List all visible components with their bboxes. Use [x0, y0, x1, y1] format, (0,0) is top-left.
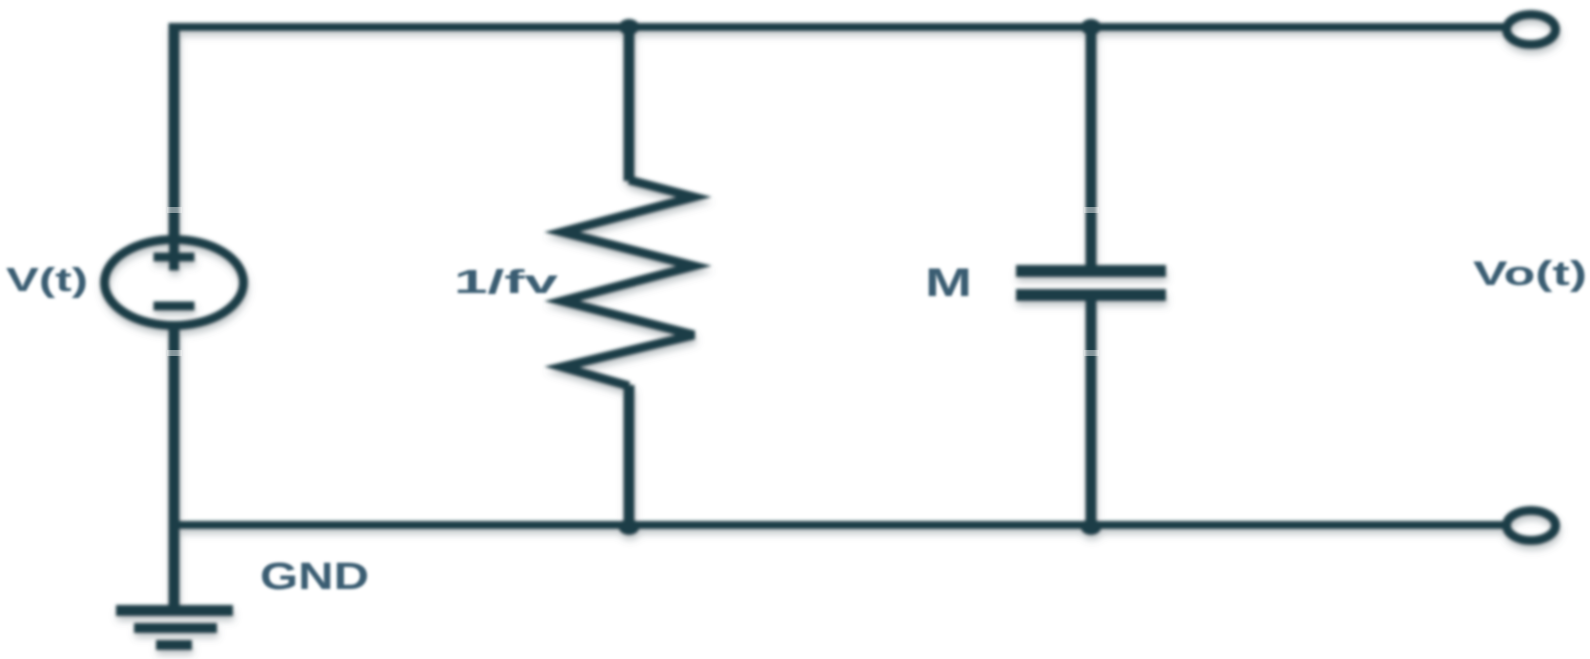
svg-text:V(t): V(t)	[6, 261, 88, 298]
svg-text:1/fv: 1/fv	[454, 263, 559, 300]
svg-text:GND: GND	[260, 556, 369, 598]
svg-text:M: M	[925, 261, 972, 305]
svg-text:Vo(t): Vo(t)	[1473, 255, 1587, 293]
